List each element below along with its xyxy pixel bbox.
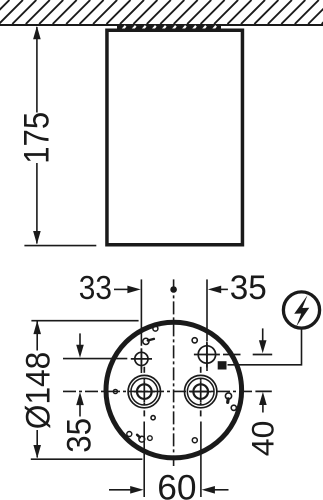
dimension O148 arrowheads (33, 321, 41, 334)
dimension 60 extension lines (144, 422, 201, 498)
dimension 40 tick upper (253, 354, 273, 356)
dimension 40 right: down arrow (262, 328, 264, 341)
dimension 175 arrowheads (33, 26, 41, 39)
svg-text:175: 175 (16, 112, 56, 164)
dimension O148 extension lines (31, 321, 143, 460)
extension line upper-left hole horizontal (63, 358, 127, 360)
svg-text:33: 33 (79, 269, 112, 306)
mounting hole left (128, 367, 160, 417)
upper-left small hole (131, 348, 152, 369)
dimension 40 right: up arrow (259, 392, 267, 405)
electrical connection symbol circle (283, 292, 319, 328)
centre reference dot (170, 286, 177, 293)
dimension 35 left: down arrow (79, 333, 81, 345)
svg-text:35: 35 (60, 418, 98, 453)
dimension 175 line (36, 27, 38, 244)
keyhole slot right (225, 393, 231, 403)
small hole bottom left (127, 432, 132, 437)
svg-text:60: 60 (157, 468, 196, 500)
dimension 175 extension line (24, 245, 96, 247)
extension line left hole (33) (140, 279, 142, 373)
upper-right small hole (194, 342, 241, 368)
svg-text:35: 35 (230, 269, 267, 307)
keyhole slot upper-left (143, 338, 154, 344)
small rim hole top-left (153, 326, 158, 331)
ceiling bottom line (0, 24, 323, 26)
dimension 60 left arrow (109, 489, 131, 491)
small hole below left mounting hole (151, 416, 155, 420)
dimension 35 left: up arrow (76, 392, 84, 405)
electrical connection leader (228, 329, 302, 365)
small hole bottom centre-left (148, 436, 153, 441)
extension line right hole (35) (206, 279, 208, 371)
dimension 40 tick lower (255, 390, 271, 392)
lightning bolt (294, 295, 309, 326)
terminal square (218, 361, 227, 369)
dimension 35 top arrow (218, 288, 228, 290)
mounting hole right (185, 367, 217, 417)
dimension O148 line (36, 322, 38, 458)
svg-text:40: 40 (244, 421, 280, 457)
ceiling hatch band (0, 0, 323, 24)
dimension 33 arrow (114, 288, 130, 290)
base plate circle (106, 322, 242, 458)
luminaire body (side view) (107, 30, 243, 245)
small hole left on centre line (113, 389, 117, 393)
dimension 60 right arrow (202, 486, 215, 494)
small hole lower right rim (231, 405, 236, 410)
mounting flange serration (117, 26, 221, 30)
small hole above right hole (192, 338, 197, 343)
svg-text:Ø148: Ø148 (19, 352, 57, 430)
small hole bottom right (192, 438, 197, 443)
vertical centre line (173, 279, 175, 466)
keyhole slot bottom-left (137, 435, 145, 442)
horizontal centre line (63, 390, 255, 392)
